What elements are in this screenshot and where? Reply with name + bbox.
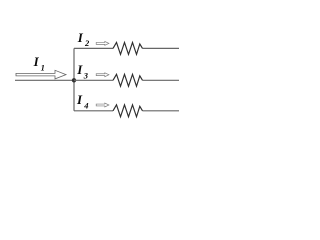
wire middle branch right: [143, 79, 180, 81]
current arrow I4: [96, 103, 109, 107]
current arrow I1: [16, 70, 66, 79]
resistor R3: [113, 105, 143, 117]
current arrow I3: [96, 73, 109, 77]
wire top branch right: [143, 47, 180, 49]
wire top branch left: [74, 47, 113, 49]
resistor R1: [113, 42, 143, 54]
svg-text:I: I: [33, 54, 40, 69]
label I4: [76, 92, 88, 111]
svg-text:I: I: [76, 62, 83, 77]
wire input from source: [15, 79, 74, 81]
svg-text:4: 4: [83, 101, 88, 111]
label I1: [33, 54, 45, 72]
wire bottom branch right: [143, 110, 180, 112]
svg-text:2: 2: [84, 38, 90, 48]
svg-text:I: I: [77, 30, 84, 45]
svg-text:3: 3: [83, 70, 89, 80]
current arrow I2: [96, 41, 109, 45]
label I3: [76, 62, 89, 80]
svg-text:1: 1: [41, 62, 45, 72]
wire bottom branch left: [74, 110, 113, 112]
wire vertical bus: [73, 48, 75, 110]
label I2: [77, 30, 90, 48]
node junction dot: [72, 78, 76, 82]
resistor R2: [113, 74, 143, 86]
svg-text:I: I: [76, 92, 83, 107]
wire middle branch left: [74, 79, 113, 81]
